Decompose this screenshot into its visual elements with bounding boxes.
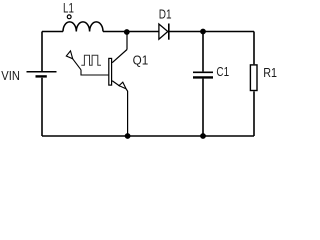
svg-text:C1: C1 xyxy=(216,64,229,79)
svg-text:VIN: VIN xyxy=(1,68,20,83)
node C1 bottom junction dot xyxy=(200,133,206,139)
battery VIN positive plate xyxy=(27,71,57,73)
drive pulse waveform xyxy=(81,55,101,65)
wire top rail right segment xyxy=(169,31,254,33)
svg-text:L1: L1 xyxy=(63,1,74,16)
capacitor C1 bottom plate xyxy=(193,76,213,78)
wire right rail upper xyxy=(253,32,255,65)
transistor Q1 base bar xyxy=(109,58,112,85)
wire C1 branch lower xyxy=(202,79,204,136)
wire collector vertical xyxy=(126,32,128,50)
wire left rail lower xyxy=(41,78,43,136)
diode D1 xyxy=(159,24,168,39)
node C1 top junction dot xyxy=(200,29,206,35)
node collector junction dot xyxy=(124,29,130,35)
battery VIN negative plate xyxy=(36,75,47,77)
svg-text:Q1: Q1 xyxy=(133,53,149,68)
wire C1 branch upper xyxy=(202,32,204,72)
drive arrow shaft xyxy=(72,58,81,70)
wire left rail upper xyxy=(41,32,43,72)
transistor Q1 emitter lead xyxy=(112,81,120,86)
wire emitter to bottom xyxy=(126,89,128,136)
capacitor C1 top plate xyxy=(193,71,213,73)
wire bottom rail xyxy=(42,135,254,137)
svg-text:R1: R1 xyxy=(263,65,277,80)
wire top rail left segment xyxy=(42,31,63,33)
wire top rail middle segment xyxy=(103,31,159,33)
wire base drive xyxy=(81,70,108,75)
transistor Q1 emitter arrow xyxy=(119,82,126,89)
drive arrow head xyxy=(66,51,72,59)
transistor Q1 collector lead xyxy=(112,50,127,63)
wire right rail lower xyxy=(253,91,255,136)
resistor R1 xyxy=(250,65,257,91)
node emitter bottom junction dot xyxy=(125,133,131,139)
inductor L1 xyxy=(63,22,103,32)
diode D1 cathode bar xyxy=(168,24,170,40)
L1 phase dot circle xyxy=(67,15,71,19)
svg-text:D1: D1 xyxy=(159,6,172,21)
